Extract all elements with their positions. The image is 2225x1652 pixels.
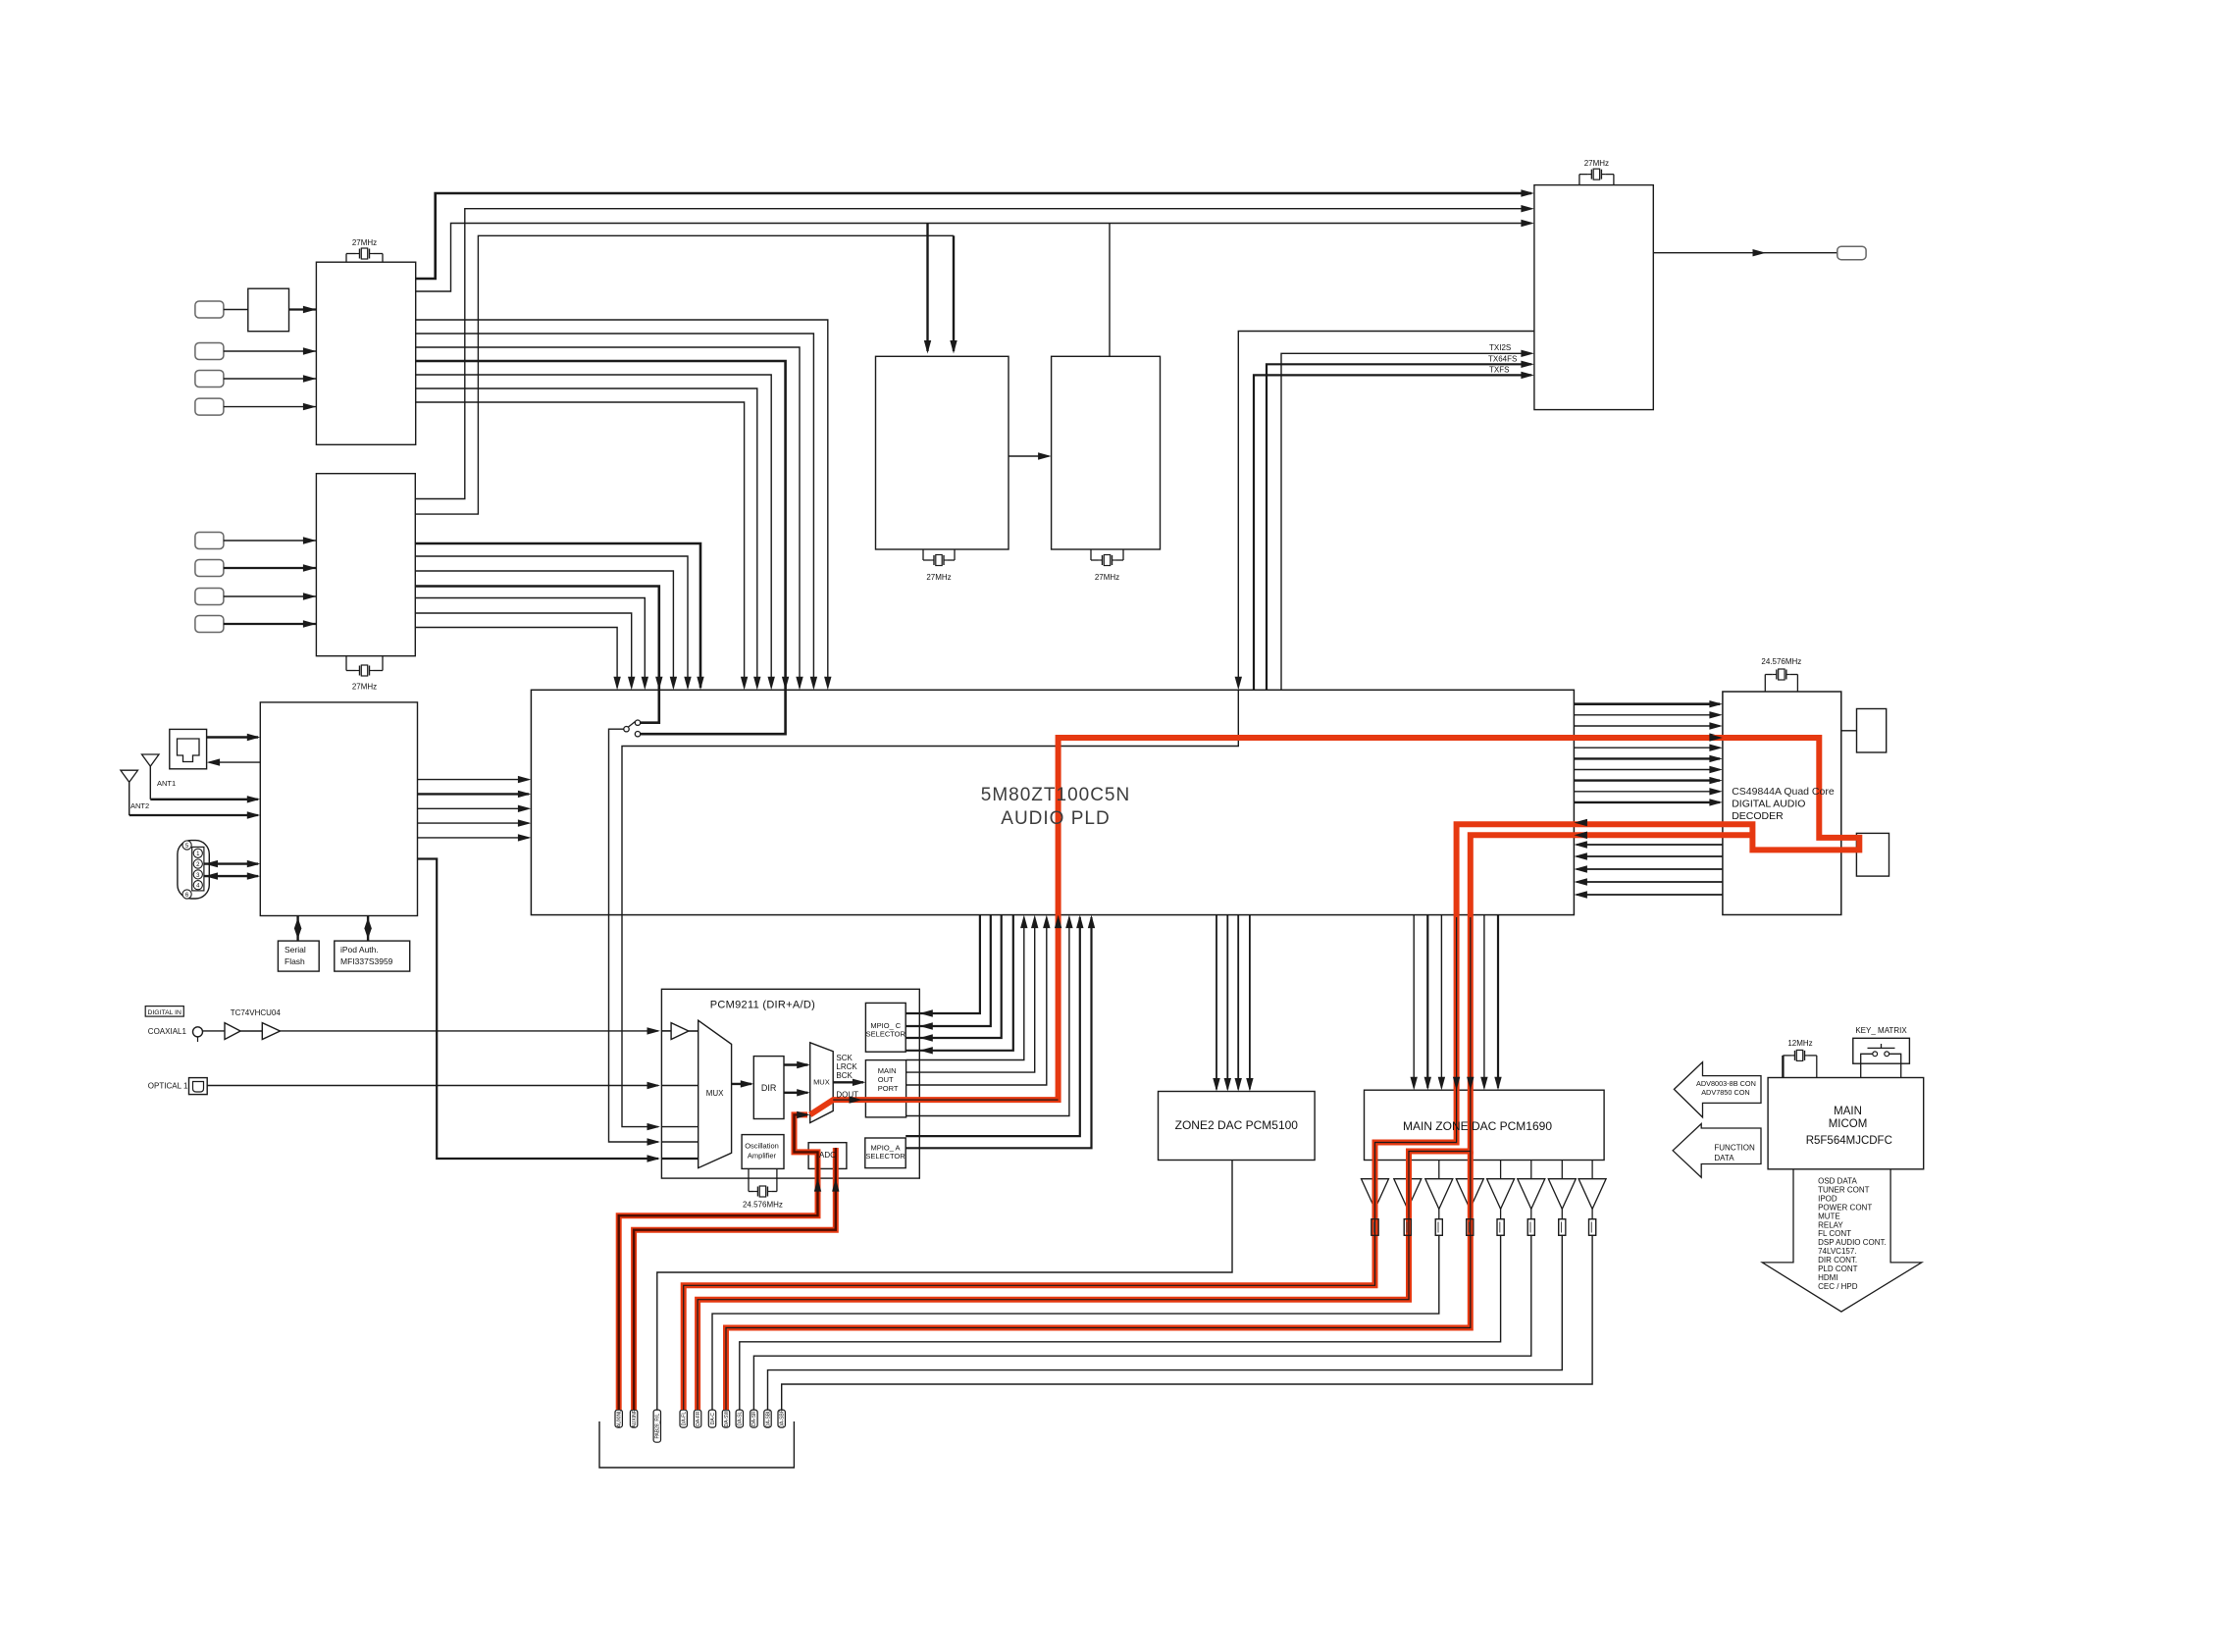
svg-text:COAXIAL1: COAXIAL1 <box>148 1027 187 1036</box>
svg-text:MUX: MUX <box>706 1089 724 1098</box>
svg-text:DA-FR: DA-FR <box>696 1411 701 1426</box>
svg-text:DA-C: DA-C <box>710 1413 716 1425</box>
svg-text:TXI2S: TXI2S <box>1489 343 1511 352</box>
svg-text:MAIN: MAIN <box>878 1066 897 1075</box>
svg-text:SELECTOR: SELECTOR <box>866 1030 906 1039</box>
svg-text:FUNCTION: FUNCTION <box>1714 1144 1755 1153</box>
svg-text:MFI337S3959: MFI337S3959 <box>340 956 393 966</box>
svg-text:BCK: BCK <box>836 1071 853 1080</box>
svg-text:27MHz: 27MHz <box>352 238 377 247</box>
svg-text:27MHz: 27MHz <box>1584 159 1609 168</box>
svg-text:ANT1: ANT1 <box>157 779 176 788</box>
svg-text:SELECTOR: SELECTOR <box>865 1152 906 1161</box>
svg-text:MAIN: MAIN <box>1834 1106 1862 1117</box>
svg-text:RELAY: RELAY <box>1818 1220 1843 1229</box>
svg-text:LRCK: LRCK <box>836 1062 857 1071</box>
svg-text:POWER CONT: POWER CONT <box>1818 1203 1872 1212</box>
svg-text:DIR: DIR <box>761 1083 777 1093</box>
svg-text:AUDIO PLD: AUDIO PLD <box>1001 808 1110 829</box>
svg-text:ADV7850 CON: ADV7850 CON <box>1701 1088 1749 1097</box>
svg-text:DA-SBR: DA-SBR <box>780 1409 786 1427</box>
svg-text:SCK: SCK <box>836 1054 853 1062</box>
svg-text:TC74VHCU04: TC74VHCU04 <box>231 1008 282 1017</box>
svg-text:27MHz: 27MHz <box>352 683 377 692</box>
svg-text:TUNER CONT: TUNER CONT <box>1818 1185 1870 1194</box>
svg-text:IPOD: IPOD <box>1818 1194 1837 1203</box>
svg-text:PORT: PORT <box>878 1084 899 1093</box>
svg-text:FL CONT: FL CONT <box>1818 1229 1851 1238</box>
svg-text:PAB28_R/L: PAB28_R/L <box>655 1414 661 1439</box>
svg-text:DECODER: DECODER <box>1732 810 1784 822</box>
svg-text:27MHz: 27MHz <box>926 573 951 582</box>
svg-text:Amplifier: Amplifier <box>748 1152 777 1161</box>
svg-text:24.576MHz: 24.576MHz <box>743 1201 783 1210</box>
svg-text:27MHz: 27MHz <box>1095 573 1119 582</box>
svg-text:HDMI: HDMI <box>1818 1273 1837 1282</box>
svg-text:KEY_ MATRIX: KEY_ MATRIX <box>1855 1026 1907 1035</box>
svg-text:PCM9211 (DIR+A/D): PCM9211 (DIR+A/D) <box>710 1000 815 1011</box>
svg-text:MUX: MUX <box>813 1078 830 1087</box>
svg-text:ANT2: ANT2 <box>130 801 149 810</box>
svg-text:DA-SBL: DA-SBL <box>765 1410 771 1427</box>
svg-text:MAIN ZONE DAC PCM1690: MAIN ZONE DAC PCM1690 <box>1403 1119 1552 1133</box>
svg-text:PLD CONT: PLD CONT <box>1818 1265 1858 1273</box>
svg-text:DA-FL: DA-FL <box>682 1412 688 1426</box>
svg-text:OSD DATA: OSD DATA <box>1818 1177 1857 1186</box>
svg-text:ADC: ADC <box>819 1151 836 1160</box>
svg-text:TXFS: TXFS <box>1489 366 1509 375</box>
svg-text:DA-SR: DA-SR <box>751 1411 757 1426</box>
svg-text:DA-SL: DA-SL <box>738 1412 744 1426</box>
svg-text:R5F564MJCDFC: R5F564MJCDFC <box>1806 1135 1892 1147</box>
svg-text:AUXINL: AUXINL <box>617 1410 623 1427</box>
svg-text:DIGITAL IN: DIGITAL IN <box>148 1009 181 1016</box>
svg-text:Flash: Flash <box>285 956 305 966</box>
svg-text:5M80ZT100C5N: 5M80ZT100C5N <box>981 785 1130 805</box>
svg-text:OPTICAL 1: OPTICAL 1 <box>148 1082 188 1091</box>
svg-text:DSP AUDIO CONT.: DSP AUDIO CONT. <box>1818 1238 1887 1247</box>
svg-text:ZONE2 DAC PCM5100: ZONE2 DAC PCM5100 <box>1175 1118 1299 1132</box>
svg-text:12MHz: 12MHz <box>1787 1039 1812 1048</box>
svg-text:MUTE: MUTE <box>1818 1212 1840 1220</box>
svg-text:AUXINR: AUXINR <box>632 1409 638 1427</box>
svg-text:DIGITAL AUDIO: DIGITAL AUDIO <box>1732 799 1805 810</box>
svg-text:CS49844A Quad Core: CS49844A Quad Core <box>1732 786 1835 798</box>
svg-text:OUT: OUT <box>878 1075 894 1084</box>
svg-text:CEC / HPD: CEC / HPD <box>1818 1282 1858 1291</box>
svg-text:DIR CONT.: DIR CONT. <box>1818 1256 1857 1265</box>
svg-text:iPod Auth.: iPod Auth. <box>340 945 379 955</box>
svg-text:MICOM: MICOM <box>1829 1118 1868 1130</box>
svg-text:74LVC157.: 74LVC157. <box>1818 1247 1856 1256</box>
svg-text:Oscillation: Oscillation <box>745 1142 779 1151</box>
svg-text:TX64FS: TX64FS <box>1488 355 1517 364</box>
svg-text:Serial: Serial <box>285 945 306 955</box>
svg-text:ADV8003-8B CON: ADV8003-8B CON <box>1696 1079 1756 1088</box>
svg-text:24.576MHz: 24.576MHz <box>1761 657 1801 666</box>
svg-text:DA-SW: DA-SW <box>724 1410 730 1426</box>
svg-text:DATA: DATA <box>1714 1154 1734 1162</box>
